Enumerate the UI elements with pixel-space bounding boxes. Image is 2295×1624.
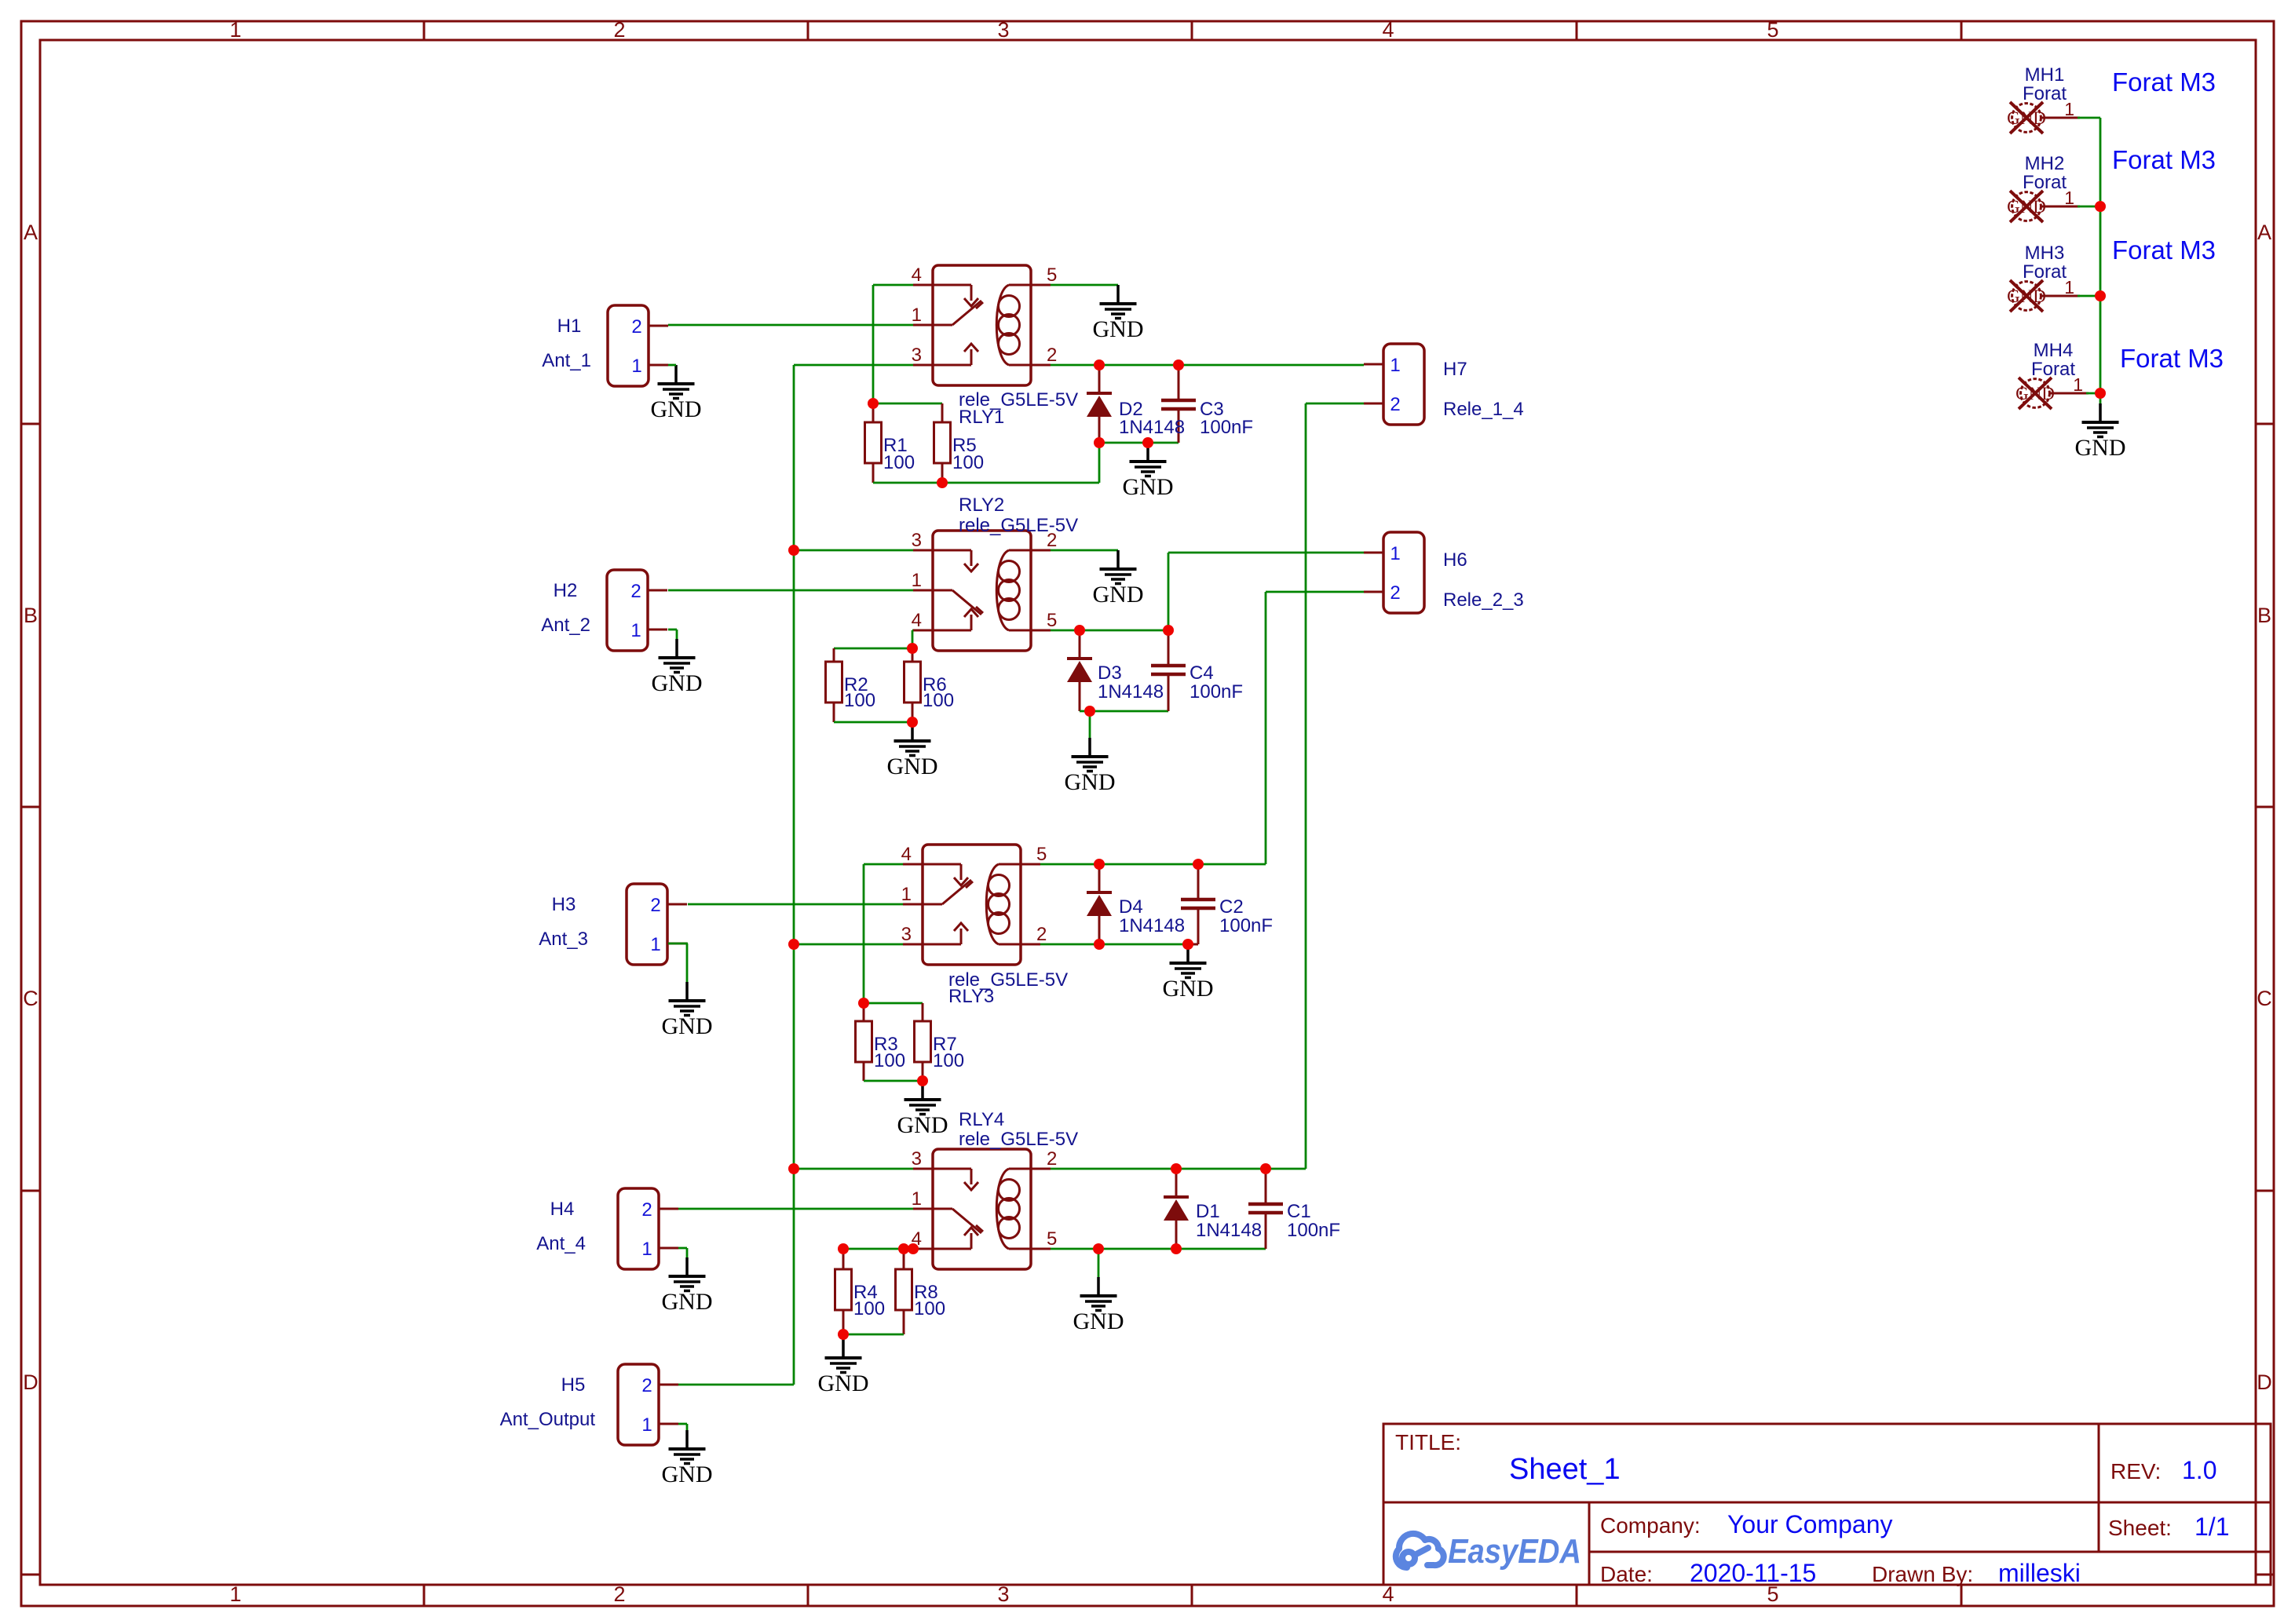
svg-text:RLY3: RLY3 (948, 986, 994, 1007)
svg-text:GND: GND (1163, 976, 1214, 1002)
svg-text:Forat M3: Forat M3 (2112, 68, 2216, 97)
svg-text:5: 5 (1767, 18, 1778, 42)
svg-text:1: 1 (641, 1414, 652, 1436)
svg-text:4: 4 (912, 610, 922, 631)
svg-text:GND: GND (1123, 474, 1174, 500)
svg-text:RLY2: RLY2 (959, 494, 1004, 516)
svg-text:1.0: 1.0 (2182, 1456, 2216, 1484)
svg-text:2: 2 (641, 1199, 652, 1221)
svg-text:MH1: MH1 (2025, 64, 2065, 86)
svg-text:C1: C1 (1287, 1201, 1311, 1222)
svg-text:2: 2 (1390, 394, 1400, 415)
svg-text:B: B (2257, 604, 2271, 627)
svg-text:100: 100 (914, 1298, 945, 1319)
svg-text:REV:: REV: (2110, 1459, 2161, 1483)
svg-text:100nF: 100nF (1190, 681, 1243, 703)
svg-text:Forat: Forat (2031, 359, 2075, 380)
svg-text:Ant_Output: Ant_Output (500, 1409, 596, 1430)
svg-text:100nF: 100nF (1219, 915, 1273, 936)
svg-text:Rele_1_4: Rele_1_4 (1443, 399, 1524, 420)
svg-text:1: 1 (630, 620, 641, 641)
svg-text:GND: GND (652, 670, 703, 696)
svg-text:4: 4 (1382, 18, 1394, 42)
svg-text:H5: H5 (561, 1374, 586, 1396)
svg-text:A: A (2257, 221, 2271, 244)
svg-text:D4: D4 (1119, 896, 1143, 918)
svg-text:D3: D3 (1098, 662, 1122, 684)
svg-text:A: A (24, 221, 38, 244)
svg-text:1N4148: 1N4148 (1196, 1220, 1262, 1241)
svg-text:Forat: Forat (2023, 83, 2067, 104)
svg-text:D: D (23, 1370, 38, 1394)
svg-text:Your Company: Your Company (1727, 1510, 1893, 1538)
svg-text:1: 1 (229, 1582, 241, 1606)
svg-text:1: 1 (631, 356, 641, 377)
svg-text:2: 2 (650, 895, 660, 916)
svg-text:100nF: 100nF (1200, 417, 1253, 438)
svg-text:D1: D1 (1196, 1201, 1220, 1222)
svg-text:2: 2 (613, 1582, 625, 1606)
svg-text:GND: GND (662, 1462, 713, 1487)
svg-text:H6: H6 (1443, 549, 1467, 571)
svg-text:100nF: 100nF (1287, 1220, 1340, 1241)
svg-text:2: 2 (630, 581, 641, 602)
svg-text:Forat: Forat (2023, 261, 2067, 283)
svg-text:2: 2 (1390, 582, 1400, 604)
svg-text:3: 3 (912, 345, 922, 366)
svg-text:100: 100 (952, 452, 984, 473)
svg-text:C2: C2 (1219, 896, 1244, 918)
svg-text:2: 2 (641, 1375, 652, 1396)
svg-text:1N4148: 1N4148 (1119, 417, 1185, 438)
svg-text:1/1: 1/1 (2195, 1513, 2229, 1541)
svg-text:5: 5 (1047, 610, 1057, 631)
svg-text:Forat M3: Forat M3 (2112, 235, 2216, 265)
svg-text:1: 1 (229, 18, 241, 42)
svg-text:3: 3 (912, 1148, 922, 1170)
svg-text:4: 4 (912, 265, 922, 286)
svg-text:RLY1: RLY1 (959, 407, 1004, 428)
svg-text:2: 2 (1036, 924, 1047, 945)
svg-text:Drawn By:: Drawn By: (1872, 1562, 1973, 1586)
svg-text:1N4148: 1N4148 (1119, 915, 1185, 936)
svg-text:2: 2 (1047, 345, 1057, 366)
svg-text:100: 100 (844, 690, 875, 711)
svg-text:100: 100 (874, 1050, 905, 1071)
svg-text:Ant_4: Ant_4 (536, 1233, 586, 1254)
svg-text:rele_G5LE-5V: rele_G5LE-5V (959, 1129, 1078, 1150)
svg-text:1: 1 (912, 305, 922, 326)
svg-text:MH4: MH4 (2034, 340, 2074, 361)
svg-text:C: C (23, 987, 38, 1010)
svg-text:2: 2 (631, 316, 641, 338)
svg-text:GND: GND (662, 1013, 713, 1039)
svg-text:1: 1 (912, 1188, 922, 1210)
svg-text:Ant_3: Ant_3 (539, 929, 588, 950)
svg-text:GND: GND (1073, 1308, 1124, 1334)
svg-text:3: 3 (901, 924, 912, 945)
svg-text:GND: GND (887, 754, 938, 779)
svg-text:MH2: MH2 (2025, 153, 2065, 174)
svg-text:5: 5 (1047, 1228, 1057, 1250)
svg-text:Forat M3: Forat M3 (2112, 145, 2216, 174)
svg-text:EasyEDA: EasyEDA (1448, 1532, 1581, 1571)
svg-text:3: 3 (997, 18, 1009, 42)
svg-text:1: 1 (641, 1239, 652, 1260)
svg-text:H2: H2 (554, 580, 578, 601)
svg-text:GND: GND (2075, 435, 2126, 461)
svg-text:2: 2 (613, 18, 625, 42)
svg-text:Sheet_1: Sheet_1 (1509, 1453, 1621, 1486)
svg-text:Ant_1: Ant_1 (542, 350, 591, 371)
svg-text:TITLE:: TITLE: (1395, 1430, 1461, 1454)
svg-text:GND: GND (651, 396, 702, 422)
svg-text:2020-11-15: 2020-11-15 (1690, 1559, 1816, 1587)
svg-text:GND: GND (662, 1289, 713, 1315)
svg-text:1: 1 (1390, 355, 1400, 376)
svg-text:1: 1 (1390, 543, 1400, 564)
svg-text:1: 1 (901, 884, 912, 905)
svg-text:1: 1 (912, 570, 922, 591)
svg-text:GND: GND (897, 1112, 948, 1138)
svg-text:Forat M3: Forat M3 (2120, 344, 2224, 373)
svg-text:100: 100 (883, 452, 915, 473)
svg-text:GND: GND (1065, 769, 1116, 795)
svg-text:H7: H7 (1443, 359, 1467, 380)
svg-text:3: 3 (912, 530, 922, 551)
svg-text:C: C (2257, 987, 2272, 1010)
svg-text:100: 100 (933, 1050, 964, 1071)
svg-text:Rele_2_3: Rele_2_3 (1443, 589, 1524, 611)
svg-text:Sheet:: Sheet: (2108, 1516, 2172, 1540)
svg-text:RLY4: RLY4 (959, 1109, 1004, 1130)
svg-text:GND: GND (1093, 582, 1144, 608)
svg-text:Ant_2: Ant_2 (541, 615, 590, 636)
svg-text:MH3: MH3 (2025, 243, 2065, 264)
svg-text:C4: C4 (1190, 662, 1214, 684)
svg-text:D: D (2257, 1370, 2272, 1394)
svg-text:100: 100 (853, 1298, 885, 1319)
svg-text:H4: H4 (550, 1199, 575, 1220)
svg-text:H3: H3 (552, 894, 576, 915)
svg-text:Date:: Date: (1600, 1562, 1653, 1586)
svg-text:5: 5 (1047, 265, 1057, 286)
svg-text:B: B (24, 604, 38, 627)
svg-text:3: 3 (997, 1582, 1009, 1606)
svg-text:100: 100 (923, 690, 954, 711)
svg-text:Company:: Company: (1600, 1513, 1701, 1538)
svg-text:H1: H1 (557, 316, 582, 337)
svg-text:4: 4 (901, 844, 912, 865)
svg-text:1: 1 (650, 934, 660, 955)
svg-text:2: 2 (1047, 1148, 1057, 1170)
svg-text:Forat: Forat (2023, 172, 2067, 193)
svg-text:GND: GND (1093, 316, 1144, 342)
svg-text:5: 5 (1036, 844, 1047, 865)
svg-text:milleski: milleski (1998, 1559, 2081, 1587)
svg-text:GND: GND (818, 1370, 869, 1396)
svg-text:1N4148: 1N4148 (1098, 681, 1164, 703)
svg-text:rele_G5LE-5V: rele_G5LE-5V (959, 515, 1078, 536)
